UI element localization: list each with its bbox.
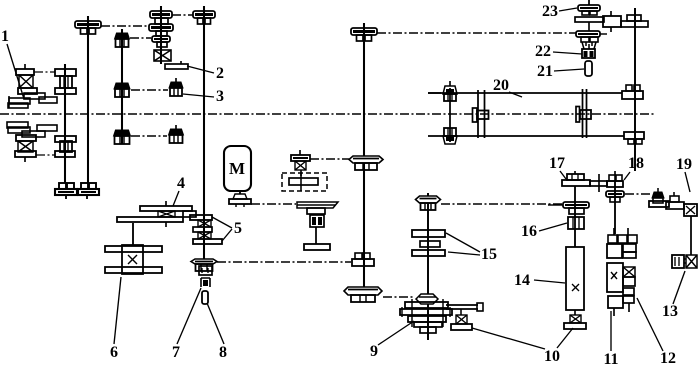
- coupling part 13: [672, 255, 697, 268]
- shaft XI (x=615): [614, 181, 616, 234]
- pulley on shaft VI (x=364,y=156): [349, 156, 383, 170]
- gear on shaft IX bottom (x=633): [624, 132, 644, 144]
- wire belt shaft VI to pulley 23b (dash-dot): [377, 32, 576, 34]
- motor M: [224, 146, 251, 207]
- gear on shaft I lower: [55, 136, 76, 157]
- cone pulley part 9 top: [416, 294, 438, 304]
- svg-text:9: 9: [370, 343, 378, 360]
- label 7 with leader: [172, 288, 201, 361]
- svg-text:23: 23: [542, 3, 558, 20]
- gear cluster part 6: [105, 245, 162, 274]
- svg-text:11: 11: [603, 351, 618, 367]
- wire line left of pulley X: [548, 204, 563, 206]
- svg-text:16: 16: [521, 223, 537, 240]
- label 2 with leader: [187, 65, 224, 82]
- clamp part 22: [582, 44, 595, 58]
- wire mesh x122-x176 upper (dash-dot): [131, 89, 168, 91]
- wire belt pulley XI to part 19 (dash-dot): [625, 193, 651, 195]
- shaft X (x=575): [574, 186, 576, 247]
- label 9 with leader: [370, 321, 414, 360]
- pulley on shaft X: [563, 202, 589, 214]
- wire main horizontal axis (dash-dot): [0, 113, 655, 115]
- pin x599: [598, 174, 600, 192]
- wire mesh cluster1-gearI lower (dash-dot): [36, 154, 55, 156]
- shaft VII short (x=133): [132, 223, 134, 246]
- pulley part 23: [578, 0, 600, 15]
- svg-text:18: 18: [628, 155, 644, 172]
- gear idler lower (x=176): [169, 125, 184, 143]
- svg-text:7: 7: [172, 344, 180, 361]
- label 4 with leader: [173, 175, 185, 206]
- vertical spindle x481: [473, 90, 489, 138]
- wire belt stack to shaft V (dash-dot): [172, 14, 193, 16]
- svg-text:21: 21: [537, 63, 553, 80]
- label 12 with leader: [637, 298, 676, 367]
- svg-text:19: 19: [676, 156, 692, 173]
- svg-text:4: 4: [177, 175, 185, 192]
- pin part 8 capsule: [202, 291, 208, 304]
- vertical spindle x584: [576, 89, 591, 138]
- label 19 with leader: [676, 156, 692, 192]
- wire belt pulley VI to cone 9 (dash-dot): [383, 296, 415, 298]
- top-right bar: [575, 8, 648, 32]
- svg-text:13: 13: [662, 303, 678, 320]
- svg-text:6: 6: [110, 344, 118, 361]
- gear on shaft VI top: [351, 23, 377, 41]
- shaft I (x=65): [64, 64, 66, 183]
- lever bar part2: [165, 61, 188, 69]
- step bars cluster 1 upper: [8, 93, 57, 108]
- svg-text:14: 14: [514, 272, 530, 289]
- shaft VIII (x=428): [427, 193, 429, 340]
- svg-text:22: 22: [535, 43, 551, 60]
- label 5 with leaders: [212, 217, 242, 241]
- svg-text:8: 8: [219, 344, 227, 361]
- shaft II (x=88): [87, 16, 89, 183]
- rack bars part 4: [117, 201, 196, 227]
- gear on shaft II top: [75, 16, 101, 34]
- shaft pin into dashed box: [300, 170, 302, 176]
- wire shaft20 bottom line: [428, 135, 624, 137]
- label 23 with leader: [542, 3, 577, 20]
- svg-text:M: M: [229, 159, 245, 178]
- pulley part 23b: [576, 31, 607, 42]
- svg-text:12: 12: [660, 350, 676, 367]
- label 16 with leader: [521, 223, 567, 240]
- svg-text:20: 20: [493, 77, 509, 94]
- svg-text:2: 2: [216, 65, 224, 82]
- gearbox stack part 9: [400, 299, 452, 339]
- pulley under dashed box: [297, 202, 338, 214]
- clamp part 7: [199, 266, 212, 287]
- gear block 17: [567, 171, 584, 180]
- svg-text:1: 1: [1, 28, 9, 45]
- lead screw part 14: [566, 247, 584, 310]
- shaft XII (x=691): [690, 216, 692, 255]
- wire belt shaft II to stack (dash-dot): [101, 25, 149, 27]
- label 15 with leaders: [446, 233, 497, 263]
- wire shaft20 top line: [428, 92, 622, 94]
- gear on shaft III lower: [114, 126, 131, 144]
- svg-text:17: 17: [549, 155, 565, 172]
- pulley on shaft XI: [606, 191, 624, 202]
- label 18 with leader: [624, 155, 644, 180]
- svg-text:3: 3: [216, 88, 224, 105]
- dashed box (apron): [282, 173, 327, 191]
- coupling part 16: [568, 217, 584, 229]
- svg-text:5: 5: [234, 220, 242, 237]
- gear on shaft IX top (x=633): [622, 85, 643, 99]
- nut under part 14: [564, 310, 586, 329]
- label 14 with leader: [514, 272, 565, 289]
- wire belt motor-gear to pulley VI (dash-dot): [310, 158, 349, 160]
- shaft V long (x=204): [203, 6, 205, 260]
- label 21 with leader: [537, 63, 584, 80]
- shaft IX (x=635): [634, 8, 636, 171]
- pin part 21 capsule: [585, 61, 592, 76]
- gear bars part 15: [412, 230, 445, 256]
- wire belt pulley5 to gear VI (dash-dot): [217, 261, 351, 263]
- gear on shaft I upper: [55, 69, 76, 94]
- gear pair on shaft x450: [443, 81, 457, 144]
- label 10 with leaders: [472, 328, 573, 365]
- label 3 with leader: [183, 88, 224, 105]
- gear train part 19: [649, 188, 697, 216]
- wire mesh x122-x176 lower (dash-dot): [131, 135, 167, 137]
- bracket part 10-left: [451, 309, 472, 330]
- gear stack parts 11-12: [607, 228, 637, 316]
- pulley on shaft VIII top: [416, 196, 441, 210]
- pulley on shaft V bottom: [191, 259, 217, 271]
- gear on shaft VI mid (y=253): [352, 253, 374, 266]
- label 13 with leader: [662, 271, 685, 320]
- clutch stack part 5: [190, 215, 222, 244]
- step bars cluster 1 lower: [7, 122, 57, 137]
- lead screw rod: [446, 303, 483, 311]
- shaft VI (x=364): [363, 23, 365, 289]
- gear on shaft III mid: [114, 79, 130, 97]
- label 22 with leader: [535, 43, 582, 60]
- gear idler upper (x=176): [169, 78, 183, 96]
- wire mesh shaft III to stack (dash-dot): [130, 37, 151, 39]
- bar assembly 17-18: [562, 180, 623, 187]
- wire belt motor to lever pulley (dash-dot): [251, 203, 296, 205]
- shaft IV gear-stack (x=161): [160, 6, 162, 64]
- label 17 with leader: [549, 155, 566, 179]
- label 8 with leader: [207, 303, 227, 361]
- output gear pair bottom-left: [55, 183, 99, 199]
- gear blocks 18: [609, 171, 622, 181]
- sliding gear cluster 1 upper X-box: [16, 64, 37, 94]
- label 11 with leader: [603, 311, 618, 367]
- wire belt pulley VIII to pulley 17L (dash-dot): [441, 203, 562, 205]
- pulley on shaft VI bottom: [344, 287, 382, 302]
- gear above dashed box (x=300): [291, 150, 310, 170]
- gear on shaft III upper: [115, 29, 130, 47]
- gear on shaft V top: [193, 6, 215, 24]
- wire mesh cluster1-gearI upper (dash-dot): [34, 71, 55, 73]
- svg-text:15: 15: [481, 246, 497, 263]
- gear stack on shaft IV: [149, 6, 173, 61]
- bracket with clutch (x=316): [310, 215, 324, 244]
- svg-text:10: 10: [544, 348, 560, 365]
- shaft pin x589: [588, 22, 590, 31]
- foot bar under bracket: [304, 244, 330, 250]
- shaft III (x=122): [121, 29, 123, 144]
- label 20 with leader: [493, 77, 522, 97]
- label 1 with leader: [1, 28, 24, 99]
- funnel under pulley 23b: [582, 42, 596, 49]
- sliding gear cluster 1 lower X-box: [15, 135, 36, 162]
- wire stub left of gear450: [428, 92, 441, 94]
- label 6 with leader: [110, 277, 121, 361]
